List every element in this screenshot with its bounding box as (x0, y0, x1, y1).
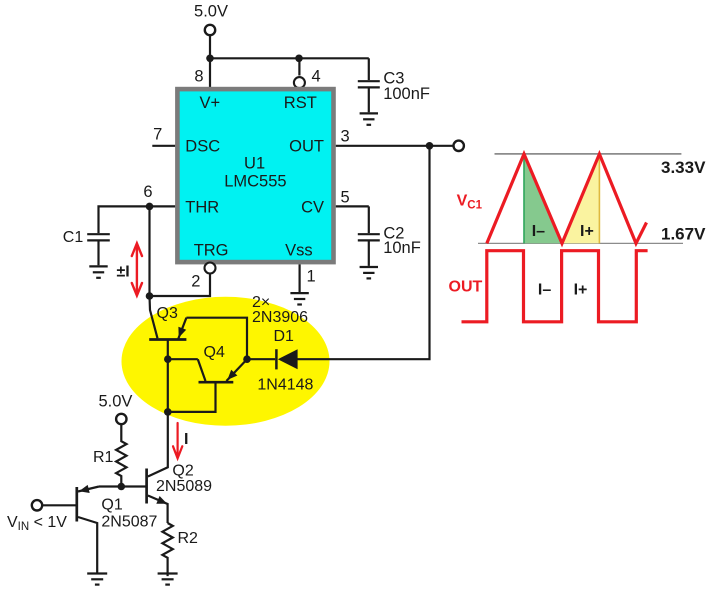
wire: base rail Q1 emitter to Q2 base (99, 485, 147, 487)
wire: pin 6 stub THR (150, 205, 176, 207)
transistor Q1 base bar (75, 487, 78, 522)
wire: pin 7 stub DSC (152, 145, 175, 147)
svg-text:3.33V: 3.33V (661, 158, 706, 177)
svg-text:2: 2 (191, 273, 200, 291)
capacitor C1 top wire (99, 206, 150, 233)
wire: node to Q4 collector (168, 358, 198, 360)
svg-text:Q1: Q1 (101, 497, 122, 514)
svg-text:VIN < 1V: VIN < 1V (7, 514, 67, 533)
svg-text:2N3906: 2N3906 (252, 309, 308, 326)
junction node R1 / Q1 emitter / Q2 base (118, 483, 126, 491)
svg-text:2N5087: 2N5087 (101, 513, 157, 530)
highlight ellipse around Q3/Q4 current-steering pair (122, 297, 330, 426)
capacitor C3 top wire (368, 58, 370, 80)
red bidirectional current arrow ±I (132, 243, 142, 295)
transistor Q1 collector lead (78, 517, 97, 573)
transistor Q2 emitter lead (148, 496, 168, 524)
yellow area right edge (598, 154, 600, 243)
wire: TRG pin 2 to node (150, 274, 211, 296)
svg-text:5: 5 (341, 189, 350, 207)
transistor Q3 emitter arrow (178, 327, 186, 338)
ground under Vss (290, 293, 308, 304)
svg-text:1.67V: 1.67V (661, 224, 706, 243)
triangle waveform VC1 (487, 154, 647, 243)
svg-text:C1: C1 (63, 229, 84, 246)
wire: Q3 emitter over to right node (186, 318, 247, 360)
svg-text:R1: R1 (93, 449, 114, 466)
output terminal circle (454, 141, 464, 151)
junction node D1/Q4 emitter (243, 355, 251, 363)
svg-text:I–: I– (532, 223, 545, 240)
wire: node to D1 cathode (247, 358, 275, 360)
capacitor C3 plates (358, 80, 380, 82)
power terminal circle (R1 5.0V) (116, 414, 126, 424)
inversion bubble on TRG pin 2 (205, 263, 216, 274)
svg-text:I+: I+ (574, 281, 588, 298)
op IC U1 LMC555 body (177, 89, 333, 262)
svg-text:VC1: VC1 (457, 193, 483, 212)
yellow shaded charge area I+ (562, 154, 599, 243)
transistor Q3 emitter lead (178, 318, 186, 340)
junction node at pin 8 rail (206, 55, 214, 63)
square waveform OUT (462, 251, 648, 322)
wire: mirror node down (167, 359, 169, 412)
svg-text:1: 1 (307, 268, 316, 286)
resistor R1 (116, 424, 126, 486)
junction node on OUT (426, 142, 434, 150)
transistor Q2 base bar (145, 469, 148, 504)
svg-text:TRG: TRG (194, 242, 229, 260)
junction node Q4 base / Q2 collector (164, 408, 172, 416)
svg-text:LMC555: LMC555 (224, 172, 286, 190)
transistor Q1 emitter arrow (79, 485, 90, 493)
ground under C2 (360, 267, 378, 278)
wire: Q2 collector up to mirror node (148, 412, 168, 477)
capacitor C2 top wire (368, 206, 370, 233)
wire: pin 8 stub into V+ (209, 58, 211, 87)
transistor Q2 emitter arrow (156, 496, 167, 504)
svg-text:I–: I– (538, 281, 551, 298)
capacitor C2 bottom wire (368, 242, 370, 266)
capacitor C1 bottom wire (97, 242, 99, 266)
green area left edge (523, 154, 525, 243)
svg-text:THR: THR (185, 199, 219, 217)
transistor Q4 base bar (199, 381, 234, 384)
transistor Q3 collector lead (150, 296, 158, 338)
wire: pin 3 OUT to output terminal (336, 145, 454, 147)
junction node at pin 4 rail (295, 55, 303, 63)
svg-text:RST: RST (284, 94, 317, 112)
wire: THR node down to Q3 node (148, 206, 150, 296)
svg-text:DSC: DSC (185, 138, 220, 156)
junction node THR/C1 (146, 203, 154, 211)
svg-text:Vss: Vss (285, 242, 313, 260)
transistor Q4 emitter arrow (227, 370, 237, 380)
ground under C3 (360, 113, 378, 124)
waveform lower threshold line 1.67V (478, 242, 683, 244)
green shaded discharge area I- (524, 154, 562, 243)
svg-text:1N4148: 1N4148 (257, 376, 313, 393)
wire: 5.0V terminal down to V+ rail (209, 35, 211, 58)
capacitor C2 plates (358, 233, 380, 235)
svg-text:10nF: 10nF (383, 239, 421, 257)
ground under R2 (158, 574, 178, 585)
capacitor C3 bottom wire (368, 89, 370, 113)
capacitor C1 plates (87, 233, 110, 235)
svg-text:3: 3 (341, 128, 350, 146)
inversion bubble on RST pin 4 (294, 77, 305, 88)
waveform upper threshold line 3.33V (495, 153, 682, 155)
svg-text:5.0V: 5.0V (194, 3, 228, 21)
transistor Q3 base bar (149, 338, 186, 341)
transistor Q4 collector lead (198, 359, 206, 381)
wire: input terminal to Q1 base (42, 504, 77, 506)
svg-text:5.0V: 5.0V (99, 393, 133, 411)
svg-text:R2: R2 (178, 530, 199, 547)
svg-text:V+: V+ (199, 94, 220, 112)
input terminal circle VIN (32, 500, 42, 510)
svg-text:Q4: Q4 (204, 344, 225, 361)
svg-text:100nF: 100nF (383, 85, 430, 103)
wire: Q3 base lead down (167, 340, 169, 360)
svg-text:OUT: OUT (289, 138, 324, 156)
junction node Q3 base / Q4 collector (164, 355, 172, 363)
svg-text:D1: D1 (274, 328, 295, 345)
svg-text:U1: U1 (244, 155, 265, 173)
wire: OUT feedback down to D1 (298, 146, 430, 359)
transistor Q1 emitter lead (78, 487, 99, 492)
diode D1 triangle (278, 349, 298, 369)
wire: V+ rail from pin 8 across to C3 (210, 57, 369, 59)
svg-text:I+: I+ (580, 223, 594, 240)
red current arrow I (173, 423, 182, 458)
resistor R2 (162, 523, 172, 576)
svg-text:4: 4 (312, 68, 321, 86)
svg-text:8: 8 (194, 68, 203, 86)
power terminal circle (top 5.0V) (205, 25, 215, 35)
svg-text:6: 6 (143, 183, 152, 201)
svg-text:I: I (184, 431, 188, 448)
junction node Q3 emitter / TRG (146, 292, 154, 300)
svg-text:7: 7 (153, 126, 162, 144)
diode D1 cathode bar (275, 349, 278, 369)
wire: pin 4 stub (298, 58, 300, 75)
ground under C1 (89, 266, 107, 277)
svg-text:2N5089: 2N5089 (156, 478, 212, 495)
wire: pin 5 stub CV (336, 205, 369, 207)
wire: Q4 base lead down and left (168, 382, 216, 412)
svg-text:OUT: OUT (449, 279, 483, 296)
svg-text:CV: CV (301, 199, 324, 217)
svg-text:Q3: Q3 (157, 305, 178, 322)
ground under Q1 (87, 574, 107, 585)
svg-text:±I: ±I (117, 264, 130, 281)
transistor Q4 emitter lead (226, 359, 247, 381)
wire: Vss pin 1 to ground (299, 264, 301, 292)
